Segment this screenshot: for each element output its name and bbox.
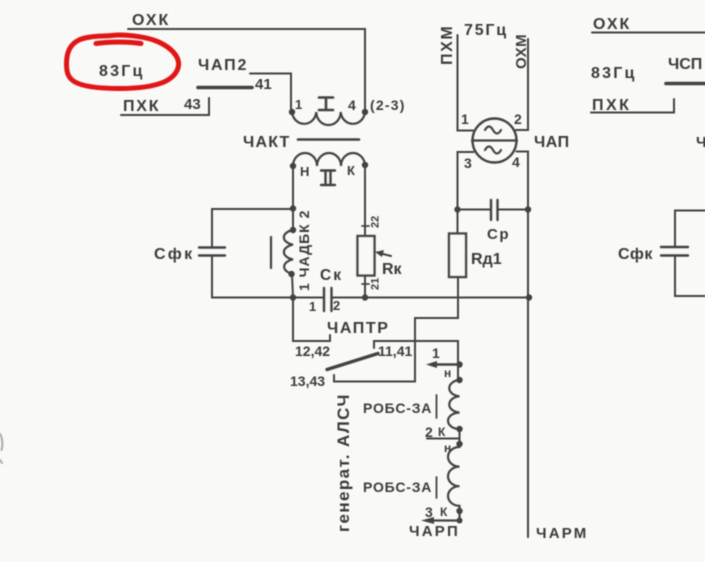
svg-text:Сфк: Сфк bbox=[154, 246, 195, 263]
svg-text:1: 1 bbox=[295, 97, 302, 112]
wire Rк to bus bbox=[364, 276, 366, 298]
resistor Rк body bbox=[358, 236, 375, 276]
junction dot winding I pin 4 bbox=[362, 109, 368, 115]
svg-text:75Гц: 75Гц bbox=[464, 22, 508, 39]
Rк pin 22 tick bbox=[362, 225, 369, 227]
svg-text:РОБС-ЗА: РОБС-ЗА bbox=[363, 400, 432, 416]
junction dot Rк bus bbox=[362, 294, 368, 300]
wire ЧАРП with arrow bbox=[434, 506, 460, 521]
svg-text:Н: Н bbox=[300, 164, 309, 179]
svg-text:4: 4 bbox=[512, 154, 520, 170]
wire ПХМ to converter pin 1 bbox=[458, 35, 474, 131]
capacitor Ср wires bbox=[458, 209, 529, 211]
wire ЧАДБК pin1 to bus bbox=[292, 274, 293, 298]
svg-text:43: 43 bbox=[184, 96, 201, 113]
svg-text:1: 1 bbox=[432, 345, 440, 361]
junction dot coil1 top bbox=[456, 377, 462, 383]
svg-text:К: К bbox=[440, 505, 448, 519]
wire bus to contact 12,42 bbox=[293, 298, 330, 342]
inductor ЧАДБК arcs bbox=[284, 230, 293, 274]
transformer winding II numeral bbox=[321, 171, 335, 186]
svg-text:83Гц: 83Гц bbox=[591, 65, 637, 82]
inductor ЧАДБК core bbox=[270, 237, 272, 268]
svg-text:Сфк: Сфк bbox=[618, 246, 653, 263]
transformer winding II arcs bbox=[293, 153, 365, 166]
resistor Rк adjustment arrow bbox=[381, 254, 391, 257]
svg-text:22: 22 bbox=[370, 216, 382, 228]
converter ЧАП chord bbox=[472, 139, 517, 141]
svg-text:21: 21 bbox=[370, 278, 382, 290]
junction dot coil2 top bbox=[456, 441, 462, 447]
wire from Н down to bus bbox=[292, 166, 294, 230]
svg-text:12,42: 12,42 bbox=[295, 343, 330, 359]
svg-text:К: К bbox=[438, 425, 446, 439]
capacitor Сфк right plates bbox=[661, 247, 688, 256]
svg-text:ЧАП: ЧАП bbox=[534, 134, 570, 151]
wire ОХК bus to transformer terminal 4 bbox=[128, 29, 365, 111]
capacitor Сфк top wire bbox=[212, 209, 293, 248]
label bar lower bbox=[436, 477, 438, 498]
svg-text:ЧАП2: ЧАП2 bbox=[198, 57, 248, 74]
wire converter pin 3 down bbox=[458, 152, 474, 209]
resistor Rд1 body bbox=[449, 234, 466, 278]
svg-text:ПХК: ПХК bbox=[592, 97, 631, 114]
junction dot winding II pin К bbox=[362, 162, 368, 168]
wire К down to Rк bbox=[364, 166, 366, 236]
svg-text:ЧСП: ЧСП bbox=[668, 56, 702, 73]
svg-text:ПХК: ПХК bbox=[123, 98, 160, 115]
svg-text:генерат. АЛСЧ: генерат. АЛСЧ bbox=[334, 393, 353, 532]
capacitor Ср plates bbox=[491, 200, 498, 220]
Rк pin 21 tick bbox=[362, 283, 369, 285]
svg-text:Rк: Rк bbox=[382, 261, 403, 278]
svg-text:2: 2 bbox=[514, 111, 522, 127]
junction dot bus right bbox=[526, 294, 532, 300]
wire right vertical to ЧАРМ bbox=[527, 210, 529, 538]
wire converter pin 4 down bbox=[517, 152, 529, 210]
svg-text:ЧАПТР: ЧАПТР bbox=[327, 320, 390, 337]
wire ОХК right bbox=[592, 32, 705, 34]
junction dot ЧАДБК pin 2 bbox=[290, 227, 296, 233]
converter ЧАП circle bbox=[473, 119, 517, 163]
junction dot ЧАДБК pin 1 bbox=[288, 271, 294, 277]
svg-text:(2-3): (2-3) bbox=[370, 97, 406, 113]
svg-text:ОХК: ОХК bbox=[593, 16, 631, 33]
svg-text:ОХК: ОХК bbox=[132, 12, 170, 29]
svg-text:1 ЧАДБК 2: 1 ЧАДБК 2 bbox=[296, 210, 312, 291]
contact ЧАПТР blade bbox=[327, 354, 378, 370]
svg-text:83Гц: 83Гц bbox=[99, 63, 145, 80]
svg-text:4: 4 bbox=[348, 97, 356, 113]
relay coil РОБС-ЗА lower arcs bbox=[448, 447, 460, 506]
label bar upper bbox=[436, 395, 438, 418]
contact 11,41 fixed wire bbox=[374, 341, 458, 380]
junction dot coil2 bottom bbox=[456, 508, 462, 514]
relay coil РОБС-ЗА upper arcs bbox=[448, 380, 459, 429]
svg-text:РОБС-ЗА: РОБС-ЗА bbox=[363, 479, 432, 495]
red hand-drawn circle around 83Гц bbox=[67, 35, 179, 88]
capacitor Сфк right top wire bbox=[675, 211, 705, 248]
svg-text:ПХМ: ПХМ bbox=[439, 25, 456, 65]
svg-text:1: 1 bbox=[309, 299, 316, 314]
transformer winding I arcs bbox=[292, 112, 365, 125]
scan artifact left edge bbox=[0, 434, 2, 463]
contact ЧАП2 movable bar bbox=[198, 86, 252, 90]
junction dot bus left bbox=[290, 294, 296, 300]
transformer winding I numeral bbox=[319, 98, 333, 111]
junction dot coil1 bottom bbox=[456, 426, 462, 432]
junction dot Сфк tap bbox=[290, 205, 296, 211]
wire 13,43 to Rд1 branch bbox=[334, 277, 458, 382]
svg-text:Rд1: Rд1 bbox=[471, 251, 502, 268]
svg-text:11,41: 11,41 bbox=[378, 343, 412, 359]
converter ЧАП upper sine bbox=[485, 127, 501, 134]
wire ПХК with terminal tick bbox=[121, 98, 209, 115]
svg-text:13,43: 13,43 bbox=[290, 373, 325, 389]
svg-text:ЧАРП: ЧАРП bbox=[409, 523, 460, 540]
junction dot Ср left bbox=[454, 206, 460, 212]
main bus wire bbox=[332, 297, 530, 299]
junction dot winding II pin Н bbox=[290, 163, 296, 169]
svg-text:41: 41 bbox=[255, 76, 272, 93]
converter ЧАП lower sine bbox=[485, 147, 501, 154]
wire ОХМ to converter pin 2 bbox=[516, 39, 528, 130]
capacitor Сфк right bottom wire bbox=[675, 256, 705, 297]
svg-text:н: н bbox=[444, 366, 451, 380]
svg-text:ЧАКТ: ЧАКТ bbox=[243, 134, 291, 151]
junction dot Ср right bbox=[525, 206, 531, 212]
junction dot wire1 bbox=[456, 361, 462, 367]
svg-text:ЧАРМ: ЧАРМ bbox=[536, 525, 588, 542]
capacitor Ск plates bbox=[324, 288, 332, 311]
capacitor Сфк plates bbox=[199, 248, 225, 256]
contact ЧАП2 fixed wire to transformer terminal 1 bbox=[250, 74, 291, 112]
wire Ср to Rд1 bbox=[457, 210, 459, 234]
svg-text:К: К bbox=[347, 163, 355, 178]
svg-text:Ср: Ср bbox=[487, 226, 510, 243]
svg-text:3: 3 bbox=[464, 155, 472, 171]
capacitor Сфк bottom wire bbox=[212, 256, 324, 298]
wire ПХК right with tick bbox=[591, 99, 674, 113]
contact ЧСП bar bbox=[666, 82, 705, 86]
junction dot winding I pin 1 bbox=[289, 109, 295, 115]
wire 1 arrow into coil bbox=[434, 363, 460, 365]
svg-text:2: 2 bbox=[333, 298, 340, 313]
svg-text:1: 1 bbox=[461, 111, 469, 127]
svg-text:Ск: Ск bbox=[320, 267, 343, 284]
transformer core bbox=[298, 138, 359, 141]
svg-text:Ч: Ч bbox=[696, 134, 705, 151]
